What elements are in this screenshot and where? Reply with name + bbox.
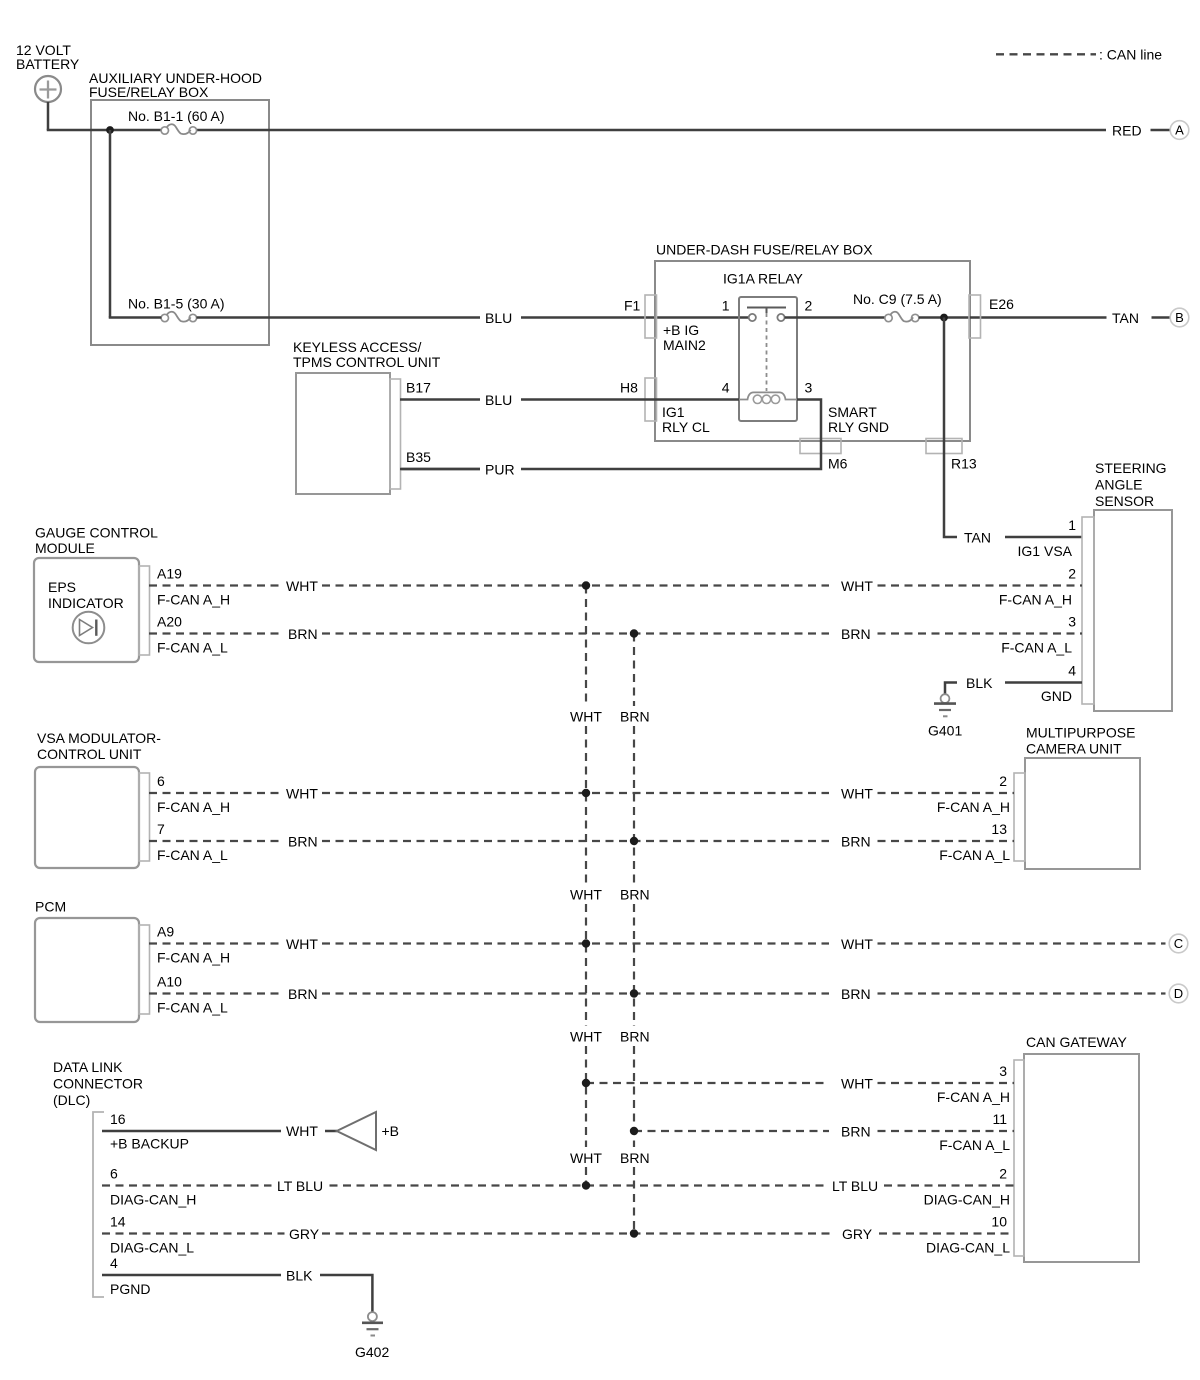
svg-text:BRN: BRN xyxy=(288,834,318,850)
svg-text:4: 4 xyxy=(722,380,730,396)
svg-text:BRN: BRN xyxy=(620,709,650,725)
svg-text:A: A xyxy=(1175,123,1184,138)
svg-text:B17: B17 xyxy=(406,380,431,396)
svg-text:BRN: BRN xyxy=(288,986,318,1002)
svg-text:M6: M6 xyxy=(828,456,848,472)
gateway pin 11 xyxy=(939,1111,1010,1153)
node WHT/row9 xyxy=(582,1181,590,1189)
wire F-CAN A_L gauge to steering (BRN) xyxy=(149,632,1082,634)
svg-text:CONNECTOR: CONNECTOR xyxy=(53,1076,143,1092)
wire fuse B1-1 to terminal A (RED) xyxy=(197,129,1107,132)
gauge pin A19 xyxy=(157,566,230,608)
wire WHT to +B triangle xyxy=(325,1130,337,1133)
svg-text:GAUGE CONTROL: GAUGE CONTROL xyxy=(35,525,158,541)
node BRN/row8 xyxy=(630,1127,638,1135)
svg-text:C: C xyxy=(1174,936,1183,951)
under-dash fuse/relay box xyxy=(655,242,970,442)
svg-text:1: 1 xyxy=(1068,517,1076,533)
svg-text:BRN: BRN xyxy=(841,986,871,1002)
node BRN/row10 xyxy=(630,1229,638,1237)
wire F-CAN A_H PCM to terminal C (WHT) xyxy=(149,942,1166,944)
wire DIAG-CAN_L DLC to gateway (GRY) xyxy=(102,1232,1014,1234)
wire label WHT row3 right xyxy=(841,786,873,802)
wire F-CAN A_L PCM to terminal D (BRN) xyxy=(149,992,1166,994)
bus labels WHT BRN (1) xyxy=(570,709,650,725)
gateway pin 3 xyxy=(937,1063,1010,1105)
wire label GRY row10 right xyxy=(842,1226,873,1242)
svg-text:MODULE: MODULE xyxy=(35,540,95,556)
svg-text:WHT: WHT xyxy=(841,1076,873,1092)
svg-text:F-CAN A_L: F-CAN A_L xyxy=(157,1000,228,1016)
power symbol +B xyxy=(337,1112,399,1150)
svg-text:G402: G402 xyxy=(355,1344,389,1360)
gauge pin A20 xyxy=(157,614,228,656)
svg-text:F-CAN A_L: F-CAN A_L xyxy=(157,640,228,656)
svg-text:10: 10 xyxy=(991,1214,1007,1230)
camera pin 2 xyxy=(937,773,1010,815)
svg-text:: CAN line: : CAN line xyxy=(1099,47,1162,63)
svg-text:14: 14 xyxy=(110,1214,126,1230)
node WHT/row3 xyxy=(582,789,590,797)
svg-text:A20: A20 xyxy=(157,614,182,630)
svg-text:WHT: WHT xyxy=(841,786,873,802)
svg-text:F-CAN A_H: F-CAN A_H xyxy=(157,592,230,608)
wire label WHT row3 left xyxy=(286,786,318,802)
svg-text:BRN: BRN xyxy=(841,1124,871,1140)
steering angle sensor unit xyxy=(1082,460,1172,711)
node WHT/row7 xyxy=(582,1079,590,1087)
svg-text:F-CAN A_H: F-CAN A_H xyxy=(937,799,1010,815)
wire label BLU (B1-5 to F1) xyxy=(485,310,512,326)
terminal B xyxy=(1170,308,1189,327)
svg-text:BRN: BRN xyxy=(841,626,871,642)
multipurpose camera unit xyxy=(1014,725,1140,870)
wire label BLK (G402) xyxy=(286,1268,313,1284)
svg-text:+B BACKUP: +B BACKUP xyxy=(110,1136,189,1152)
svg-text:PGND: PGND xyxy=(110,1281,150,1297)
DLC pin 16 xyxy=(110,1111,189,1152)
wire label WHT row5 left xyxy=(286,936,318,952)
svg-text:WHT: WHT xyxy=(570,709,602,725)
wire label BRN row6 left xyxy=(288,986,318,1002)
svg-text:RED: RED xyxy=(1112,123,1142,139)
wire label TAN (to B) xyxy=(1112,310,1139,326)
svg-text:IG1A RELAY: IG1A RELAY xyxy=(723,271,804,287)
EPS indicator lamp xyxy=(48,579,124,643)
relay contact terminals xyxy=(749,314,785,321)
wire label RED xyxy=(1112,123,1142,139)
relay actuator dashed link xyxy=(766,313,768,391)
svg-text:CONTROL UNIT: CONTROL UNIT xyxy=(37,746,142,762)
svg-text:F-CAN A_L: F-CAN A_L xyxy=(157,847,228,863)
PCM pin A9 xyxy=(157,924,230,966)
steering pin 3 xyxy=(1001,614,1076,656)
wire DLC 16 WHT xyxy=(102,1130,281,1133)
camera pin 13 xyxy=(939,821,1010,863)
svg-text:BRN: BRN xyxy=(288,626,318,642)
svg-text:KEYLESS ACCESS/: KEYLESS ACCESS/ xyxy=(293,339,422,355)
keyless access/TPMS control unit xyxy=(293,339,441,494)
svg-text:F-CAN A_H: F-CAN A_H xyxy=(999,592,1072,608)
svg-text:16: 16 xyxy=(110,1111,126,1127)
svg-text:PCM: PCM xyxy=(35,899,66,915)
wire label LT BLU row9 right xyxy=(832,1178,878,1194)
svg-text:DIAG-CAN_L: DIAG-CAN_L xyxy=(926,1240,1010,1256)
svg-text:BATTERY: BATTERY xyxy=(16,56,80,72)
svg-text:7: 7 xyxy=(157,821,165,837)
svg-text:G401: G401 xyxy=(928,723,962,739)
svg-text:2: 2 xyxy=(1068,566,1076,582)
VSA modulator-control unit xyxy=(35,730,161,868)
svg-text:INDICATOR: INDICATOR xyxy=(48,595,124,611)
svg-text:VSA MODULATOR-: VSA MODULATOR- xyxy=(37,730,161,746)
svg-text:STEERING: STEERING xyxy=(1095,460,1167,476)
svg-text:TPMS CONTROL UNIT: TPMS CONTROL UNIT xyxy=(293,354,441,370)
wire relay pin 2 to fuse C9 xyxy=(785,316,885,319)
svg-text:BRN: BRN xyxy=(620,1150,650,1166)
wire F-CAN BRN bus vertical xyxy=(633,634,635,1234)
wire BLU to H8 xyxy=(521,398,739,401)
wire label BRN row8 right xyxy=(841,1124,871,1140)
svg-text:SENSOR: SENSOR xyxy=(1095,493,1154,509)
svg-text:F-CAN A_H: F-CAN A_H xyxy=(157,799,230,815)
legend: CAN line dashed sample xyxy=(996,47,1162,63)
wire label BRN row4 right xyxy=(841,834,871,850)
svg-text:+B IG: +B IG xyxy=(663,322,699,338)
pin label +B IG MAIN2 xyxy=(663,322,706,353)
svg-text:F-CAN A_L: F-CAN A_L xyxy=(939,1137,1010,1153)
svg-text:F1: F1 xyxy=(624,298,641,314)
label SMART RLY GND xyxy=(828,404,889,435)
connector M6 xyxy=(800,439,848,472)
wire label WHT row1 left xyxy=(286,578,318,594)
wire label GRY row10 left xyxy=(289,1226,320,1242)
wire label BLU (B17) xyxy=(485,392,512,408)
wire B17 BLU xyxy=(400,398,480,401)
data link connector DLC xyxy=(53,1059,143,1297)
svg-text:2: 2 xyxy=(999,773,1007,789)
relay U1 IG1A RELAY xyxy=(723,271,804,422)
wire F-CAN A_L to gateway pin 11 (BRN) xyxy=(634,1130,1014,1132)
svg-text:2: 2 xyxy=(805,298,813,314)
wire fuse B1-5 segment xyxy=(109,316,480,319)
node WHT/row5 xyxy=(582,939,590,947)
svg-text:PUR: PUR xyxy=(485,462,515,478)
VSA pin 7 xyxy=(157,821,228,863)
wire F-CAN A_H to gateway pin 3 (WHT) xyxy=(586,1082,1014,1084)
wire fuse C9 to E26 xyxy=(919,316,1107,319)
wire label BLK (G401) xyxy=(966,675,993,691)
terminal C xyxy=(1169,934,1188,953)
ground G401 xyxy=(928,694,962,738)
fuse B1-5 30A xyxy=(128,296,225,322)
svg-text:F-CAN A_H: F-CAN A_H xyxy=(157,950,230,966)
svg-text:WHT: WHT xyxy=(286,578,318,594)
svg-text:CAMERA UNIT: CAMERA UNIT xyxy=(1026,741,1122,757)
wire TAN to steering pin 1 xyxy=(1005,536,1082,539)
svg-text:BLU: BLU xyxy=(485,392,512,408)
svg-text:D: D xyxy=(1174,986,1183,1001)
wire DIAG-CAN_H DLC to gateway (LT BLU) xyxy=(102,1184,1014,1186)
svg-text:SMART: SMART xyxy=(828,404,877,420)
svg-text:2: 2 xyxy=(999,1166,1007,1182)
svg-text:No. B1-1 (60 A): No. B1-1 (60 A) xyxy=(128,108,225,124)
pin label IG1 RLY CL xyxy=(662,404,710,435)
svg-text:IG1: IG1 xyxy=(662,404,685,420)
svg-text:BLK: BLK xyxy=(286,1268,313,1284)
connector E26 xyxy=(969,295,1014,338)
wire label BRN row4 left xyxy=(288,834,318,850)
bus labels WHT BRN (2) xyxy=(570,887,650,903)
node junction C9/R13 xyxy=(940,314,948,322)
node BRN/row2 xyxy=(630,629,638,637)
relay pin 4 xyxy=(722,380,730,396)
wire label PUR xyxy=(485,462,515,478)
connector H8 xyxy=(620,378,657,421)
svg-text:F-CAN A_L: F-CAN A_L xyxy=(1001,640,1072,656)
DLC pin 4 xyxy=(110,1255,150,1297)
PCM pin A10 xyxy=(157,974,228,1016)
wire steering GND BLK xyxy=(1005,681,1082,684)
CAN gateway unit xyxy=(1014,1034,1139,1262)
svg-text:UNDER-DASH FUSE/RELAY BOX: UNDER-DASH FUSE/RELAY BOX xyxy=(656,242,873,258)
terminal A xyxy=(1170,121,1189,140)
terminal D xyxy=(1169,984,1188,1003)
battery label xyxy=(16,42,80,72)
relay pin 3 xyxy=(805,380,813,396)
svg-text:B35: B35 xyxy=(406,449,431,465)
svg-text:3: 3 xyxy=(999,1063,1007,1079)
wire label WHT row5 right xyxy=(841,936,873,952)
wire B35 PUR segment xyxy=(400,468,480,471)
relay pin 2 xyxy=(805,298,813,314)
node WHT/row1 xyxy=(582,581,590,589)
svg-text:11: 11 xyxy=(992,1111,1007,1127)
svg-text:B: B xyxy=(1175,310,1184,325)
wire stub to terminal B xyxy=(1152,316,1171,319)
svg-text:ANGLE: ANGLE xyxy=(1095,477,1142,493)
connector F1 xyxy=(624,295,657,338)
svg-text:R13: R13 xyxy=(951,456,977,472)
gauge control module xyxy=(34,525,158,663)
svg-text:WHT: WHT xyxy=(570,1150,602,1166)
wire BLU to relay pin 1 xyxy=(521,316,749,319)
svg-text:F-CAN A_L: F-CAN A_L xyxy=(939,847,1010,863)
svg-text:RLY CL: RLY CL xyxy=(662,419,710,435)
svg-text:WHT: WHT xyxy=(286,1123,318,1139)
svg-text:DATA LINK: DATA LINK xyxy=(53,1059,123,1075)
svg-text:WHT: WHT xyxy=(286,786,318,802)
svg-text:3: 3 xyxy=(1068,614,1076,630)
svg-text:TAN: TAN xyxy=(964,530,991,546)
pin B35 xyxy=(406,449,431,465)
VSA pin 6 xyxy=(157,773,230,815)
svg-text:A9: A9 xyxy=(157,924,174,940)
bus labels WHT BRN (4) xyxy=(570,1150,650,1166)
svg-text:GND: GND xyxy=(1041,688,1072,704)
ground G402 xyxy=(355,1312,389,1360)
wire label TAN (IG1 VSA) xyxy=(964,530,991,546)
svg-text:BRN: BRN xyxy=(620,887,650,903)
svg-text:WHT: WHT xyxy=(841,936,873,952)
svg-text:+B: +B xyxy=(382,1123,400,1139)
steering pin 2 xyxy=(999,566,1076,608)
pin B17 xyxy=(406,380,431,396)
svg-text:BRN: BRN xyxy=(841,834,871,850)
svg-text:No. C9 (7.5 A): No. C9 (7.5 A) xyxy=(853,291,942,307)
wire label BRN row6 right xyxy=(841,986,871,1002)
svg-text:BRN: BRN xyxy=(620,1029,650,1045)
wire relay pin 3 via M6 to PUR xyxy=(521,400,821,470)
svg-text:LT BLU: LT BLU xyxy=(277,1178,323,1194)
relay contact bar xyxy=(747,308,786,314)
svg-text:WHT: WHT xyxy=(570,887,602,903)
wire label BRN row2 right xyxy=(841,626,871,642)
wire branch down to fuse B1-5 xyxy=(109,130,112,318)
svg-text:GRY: GRY xyxy=(289,1226,320,1242)
wire BLK elbow to ground xyxy=(945,683,957,695)
svg-text:6: 6 xyxy=(157,773,165,789)
wire label BRN row2 left xyxy=(288,626,318,642)
svg-text:A10: A10 xyxy=(157,974,182,990)
svg-text:13: 13 xyxy=(991,821,1007,837)
svg-text:6: 6 xyxy=(110,1166,118,1182)
wire F-CAN A_H gauge to steering (WHT) xyxy=(149,584,1082,586)
node BRN/row6 xyxy=(630,989,638,997)
svg-text:DIAG-CAN_L: DIAG-CAN_L xyxy=(110,1240,194,1256)
gateway pin 2 xyxy=(924,1166,1010,1208)
svg-text:LT BLU: LT BLU xyxy=(832,1178,878,1194)
svg-text:GRY: GRY xyxy=(842,1226,873,1242)
PCM unit xyxy=(35,899,150,1023)
svg-text:WHT: WHT xyxy=(841,578,873,594)
fuse C9 7.5A xyxy=(853,291,942,322)
steering pin 4 xyxy=(1041,663,1076,705)
wire R13 down to steering xyxy=(944,318,957,538)
svg-text:EPS: EPS xyxy=(48,579,76,595)
wire label LT BLU row9 left xyxy=(277,1178,323,1194)
svg-text:MAIN2: MAIN2 xyxy=(663,337,706,353)
DLC pin 6 xyxy=(110,1166,196,1208)
svg-text:FUSE/RELAY BOX: FUSE/RELAY BOX xyxy=(89,84,209,100)
gateway pin 10 xyxy=(926,1214,1010,1256)
svg-text:RLY GND: RLY GND xyxy=(828,419,889,435)
svg-text:No. B1-5 (30 A): No. B1-5 (30 A) xyxy=(128,296,225,312)
wire battery to fuse B1-1 xyxy=(47,102,162,130)
steering pin 1 xyxy=(1018,517,1077,559)
node junction battery feed xyxy=(106,126,114,134)
svg-text:A19: A19 xyxy=(157,566,182,582)
wire stub to terminal A xyxy=(1151,129,1171,132)
auxiliary under-hood fuse/relay box xyxy=(89,70,269,345)
relay pin 1 xyxy=(722,298,730,314)
fuse B1-1 60A xyxy=(128,108,225,134)
wire DLC 4 BLK xyxy=(102,1274,281,1277)
svg-text:H8: H8 xyxy=(620,380,638,396)
svg-text:BLK: BLK xyxy=(966,675,993,691)
connector R13 xyxy=(926,439,977,472)
bus labels WHT BRN (3) xyxy=(570,1029,650,1045)
wire label WHT (+B) xyxy=(286,1123,318,1139)
svg-text:1: 1 xyxy=(722,298,730,314)
wire BLK to ground G402 xyxy=(320,1275,372,1312)
battery B1 12 volt symbol xyxy=(35,76,61,102)
svg-text:3: 3 xyxy=(805,380,813,396)
svg-text:F-CAN A_H: F-CAN A_H xyxy=(937,1089,1010,1105)
svg-text:4: 4 xyxy=(110,1255,118,1271)
svg-text:WHT: WHT xyxy=(286,936,318,952)
wire F-CAN WHT bus vertical xyxy=(585,586,587,1186)
svg-text:CAN GATEWAY: CAN GATEWAY xyxy=(1026,1034,1128,1050)
wire PUR to B35 xyxy=(400,468,480,471)
svg-text:IG1 VSA: IG1 VSA xyxy=(1018,543,1073,559)
wire label WHT row7 right xyxy=(841,1076,873,1092)
node BRN/row4 xyxy=(630,837,638,845)
DLC pin 14 xyxy=(110,1214,194,1256)
svg-text:4: 4 xyxy=(1068,663,1076,679)
svg-text:DIAG-CAN_H: DIAG-CAN_H xyxy=(110,1192,196,1208)
svg-text:(DLC): (DLC) xyxy=(53,1092,90,1108)
wire label WHT row1 right xyxy=(841,578,873,594)
svg-text:BLU: BLU xyxy=(485,310,512,326)
relay coil xyxy=(739,392,797,403)
wire F-CAN A_L VSA to camera (BRN) xyxy=(149,840,1014,842)
svg-text:MULTIPURPOSE: MULTIPURPOSE xyxy=(1026,725,1135,741)
svg-text:DIAG-CAN_H: DIAG-CAN_H xyxy=(924,1192,1010,1208)
svg-text:TAN: TAN xyxy=(1112,310,1139,326)
wire F-CAN A_H VSA to camera (WHT) xyxy=(149,792,1014,794)
svg-text:E26: E26 xyxy=(989,296,1014,312)
svg-text:WHT: WHT xyxy=(570,1029,602,1045)
